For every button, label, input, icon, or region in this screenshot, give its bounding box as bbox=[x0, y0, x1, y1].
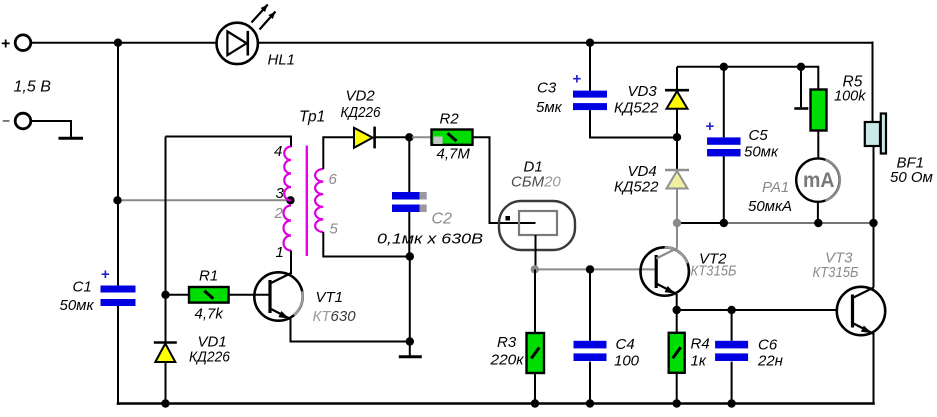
resistor R3 bbox=[527, 333, 545, 373]
wire minus terminal to ground bbox=[32, 121, 72, 137]
node C5 top junction bbox=[720, 63, 728, 71]
label SBM20 bbox=[511, 174, 561, 191]
wire junction to C2 top bbox=[408, 137, 410, 192]
label 0,1мк x 630В bbox=[377, 231, 483, 248]
wire C5 bottom bbox=[723, 156, 725, 223]
capacitor C1 bbox=[101, 286, 136, 307]
svg-text:3: 3 bbox=[276, 185, 285, 202]
label VD1 bbox=[198, 334, 227, 351]
meter PA1 bbox=[796, 158, 840, 201]
svg-text:КД522: КД522 bbox=[614, 100, 659, 117]
svg-text:4,7k: 4,7k bbox=[195, 306, 225, 323]
label KT315B (VT3) bbox=[813, 264, 859, 281]
diode VD1 bbox=[154, 295, 177, 404]
label 50мк (C5) bbox=[744, 144, 779, 161]
label HL1 bbox=[268, 52, 296, 69]
wire pin 6 to VD2 bbox=[323, 137, 353, 169]
pin 1 label bbox=[276, 244, 284, 261]
resistor R1 bbox=[189, 287, 229, 303]
wire VT1 emitter to ground stub bbox=[290, 341, 411, 343]
svg-text:КТ315Б: КТ315Б bbox=[813, 264, 859, 281]
wire PA1 to right edge (grey) bbox=[818, 222, 873, 224]
svg-text:VD2: VD2 bbox=[346, 88, 376, 105]
wire pin 1 to VT1 collector bbox=[290, 251, 292, 275]
label R1 bbox=[199, 268, 218, 285]
label R3 bbox=[497, 334, 517, 351]
label C3 bbox=[537, 80, 557, 97]
svg-text:R4: R4 bbox=[691, 336, 710, 353]
diode VD3 bbox=[665, 67, 689, 137]
label 100k bbox=[834, 89, 866, 105]
label KT630 bbox=[313, 308, 357, 325]
wire D1 junction to VT2 base (grey) bbox=[535, 268, 656, 270]
node C4 bottom rail bbox=[586, 399, 594, 407]
transformer Tr1 primary winding upper (pins 4-3) bbox=[284, 147, 291, 201]
svg-text:КД226: КД226 bbox=[341, 104, 382, 121]
node C5 bottom bbox=[720, 219, 728, 227]
node VD1 bottom rail bbox=[161, 399, 169, 407]
svg-text:5: 5 bbox=[330, 221, 339, 238]
wire VT2 emitter down bbox=[676, 294, 678, 310]
pin 6 label bbox=[329, 171, 338, 188]
svg-text:C3: C3 bbox=[537, 80, 557, 97]
label C6 bbox=[758, 337, 778, 354]
diode VD4 bbox=[665, 137, 689, 223]
capacitor C3 bbox=[573, 91, 607, 111]
svg-text:0,1мк x 630В: 0,1мк x 630В bbox=[377, 231, 483, 248]
label 1к bbox=[691, 353, 707, 370]
svg-text:1,5 В: 1,5 В bbox=[14, 79, 52, 96]
label VD3 bbox=[628, 83, 658, 100]
svg-text:C2: C2 bbox=[432, 211, 453, 228]
node PA1 bottom bbox=[814, 219, 822, 227]
svg-text:22н: 22н bbox=[757, 353, 783, 370]
transistor VT3 bbox=[837, 287, 885, 335]
svg-text:Тр1: Тр1 bbox=[299, 109, 325, 126]
node emitter/ground junction bbox=[406, 337, 414, 345]
battery plus terminal bbox=[1, 35, 31, 53]
wire C3 bottom to VD3 junction bbox=[590, 110, 675, 137]
wire VT1 emitter down bbox=[290, 319, 292, 342]
wire C2 junction down to emitter line bbox=[409, 257, 411, 342]
wire R1 to VT1 base bbox=[229, 294, 270, 296]
wire VT2 collector (grey) bbox=[676, 223, 678, 248]
svg-text:R3: R3 bbox=[497, 334, 517, 351]
wire right edge top (to BF1) bbox=[872, 42, 874, 123]
svg-text:mA: mA bbox=[803, 169, 835, 192]
label 5мк bbox=[536, 99, 563, 116]
svg-text:КД226: КД226 bbox=[189, 349, 231, 366]
label 22н bbox=[757, 353, 783, 370]
wire C2 bottom bbox=[408, 212, 410, 257]
wire right edge lower (BF1 to VT3 collector) bbox=[873, 146, 875, 288]
svg-text:КД522: КД522 bbox=[614, 179, 659, 196]
label KT315B (VT2) bbox=[691, 263, 737, 280]
label KD226 (VD1) bbox=[189, 349, 231, 366]
svg-text:50мк: 50мк bbox=[60, 297, 95, 314]
pin 5 label bbox=[330, 221, 339, 238]
node transformer pin 3 tap bbox=[286, 196, 294, 204]
label 4,7М bbox=[437, 146, 471, 163]
label BF1 bbox=[897, 155, 925, 172]
svg-text:50мк: 50мк bbox=[744, 144, 779, 161]
node C2 bottom junction bbox=[406, 252, 414, 260]
label VD4 bbox=[628, 163, 657, 180]
label VT2 bbox=[699, 251, 727, 268]
svg-text:VD4: VD4 bbox=[628, 163, 657, 180]
svg-text:HL1: HL1 bbox=[268, 52, 296, 69]
transistor VT1 bbox=[254, 272, 302, 320]
label Tr1 bbox=[299, 109, 325, 126]
node R5 wiper junction bbox=[797, 63, 805, 71]
wire R2 to D1 anode bbox=[473, 137, 536, 223]
svg-text:50мкА: 50мкА bbox=[748, 198, 792, 215]
diode VD2 bbox=[354, 127, 409, 149]
wire R4 top bbox=[676, 310, 678, 333]
svg-text:+: + bbox=[1, 36, 10, 53]
wire stub to ground bar bbox=[409, 342, 411, 356]
svg-text:2: 2 bbox=[274, 205, 284, 222]
label 50 Ом bbox=[890, 169, 933, 186]
label C4 bbox=[616, 336, 635, 353]
label D1 bbox=[524, 159, 543, 176]
Geiger tube D1 body bbox=[499, 201, 575, 250]
svg-text:КТ315Б: КТ315Б bbox=[691, 263, 737, 280]
wire PA1 to bottom line bbox=[817, 202, 819, 223]
svg-text:50 Ом: 50 Ом bbox=[890, 169, 933, 186]
resistor R5 bbox=[811, 90, 827, 131]
wire R4 bottom bbox=[676, 373, 678, 404]
wire C4 top bbox=[589, 269, 591, 340]
node top rail / x118 junction bbox=[114, 39, 122, 47]
svg-text:5мк: 5мк bbox=[536, 99, 563, 116]
label KD522 (VD4) bbox=[614, 179, 659, 196]
svg-text:100k: 100k bbox=[834, 89, 866, 105]
wire left vertical below C1 bbox=[117, 306, 119, 405]
plus mark C1 bbox=[101, 266, 110, 283]
wire battery column to transformer pin 3 (grey) bbox=[118, 199, 291, 201]
wire VD3 cathode to R5 top bbox=[677, 67, 818, 90]
capacitor C6 bbox=[715, 341, 748, 361]
node battery column y200 bbox=[113, 196, 121, 204]
ground bar (VT1 emitter) bbox=[399, 355, 422, 358]
wire VT2 emitter to VT3 base bbox=[677, 309, 837, 311]
transformer Tr1 secondary winding (pins 6-5) bbox=[315, 169, 323, 232]
pin 3 label bbox=[276, 185, 285, 202]
svg-text:220к: 220к bbox=[489, 352, 524, 369]
label KD522 (VD3) bbox=[614, 100, 659, 117]
node R3 bottom rail bbox=[531, 399, 539, 407]
wire feedback column x=165.5 bbox=[165, 137, 167, 342]
label 50мкА bbox=[748, 198, 792, 215]
node right edge y223 bbox=[869, 219, 877, 227]
sounder BF1 bbox=[865, 114, 886, 154]
svg-text:6: 6 bbox=[329, 171, 338, 188]
svg-text:C6: C6 bbox=[758, 337, 778, 354]
wire junction to R2 (grey) bbox=[412, 136, 432, 138]
svg-text:+: + bbox=[573, 71, 582, 88]
capacitor C4 bbox=[574, 341, 607, 361]
pin 4 label bbox=[274, 143, 282, 160]
node C6 top junction bbox=[727, 306, 735, 314]
svg-text:PA1: PA1 bbox=[762, 179, 789, 196]
R5 wiper wire bbox=[800, 67, 802, 108]
wire C6 top bbox=[731, 310, 733, 341]
svg-text:VT1: VT1 bbox=[316, 289, 344, 306]
label C1 bbox=[73, 279, 92, 296]
transformer Tr1 primary winding lower (pins 2-1) bbox=[284, 206, 291, 251]
label VD2 bbox=[346, 88, 376, 105]
resistor R2 bbox=[432, 130, 473, 145]
wire R3 to rail bbox=[534, 373, 536, 404]
node VD2/R2/C2 junction bbox=[405, 133, 413, 141]
label R2 bbox=[440, 111, 460, 128]
svg-text:C4: C4 bbox=[616, 336, 635, 353]
wire feedback top horizontal to pin 4 bbox=[166, 137, 292, 148]
label 220к bbox=[489, 352, 524, 369]
svg-text:R2: R2 bbox=[440, 111, 460, 128]
label C2 bbox=[432, 211, 453, 228]
capacitor C5 bbox=[707, 137, 741, 156]
label R5 bbox=[843, 74, 863, 91]
label R4 bbox=[691, 336, 710, 353]
label VT1 bbox=[316, 289, 344, 306]
plus mark C5 bbox=[706, 118, 715, 135]
wire top rail to C3 bbox=[589, 43, 591, 91]
R5 wiper bar bbox=[794, 107, 808, 110]
resistor R4 bbox=[669, 333, 685, 373]
pin 2 label bbox=[274, 205, 284, 222]
wire bottom ground rail bbox=[117, 402, 875, 405]
wire pin 5 to C2 bottom junction bbox=[323, 232, 410, 257]
wire junction to R1 bbox=[166, 294, 190, 296]
node R1/VD1 junction bbox=[161, 291, 169, 299]
transistor VT2 bbox=[641, 247, 689, 295]
wire D1 cathode down bbox=[535, 235, 537, 269]
wire junction to R3 bbox=[534, 269, 536, 333]
wire C5 to PA1 bottom (grey) bbox=[724, 222, 819, 224]
label 100 bbox=[614, 353, 640, 370]
ground bar (battery minus) bbox=[59, 137, 84, 140]
node D1 cathode junction (grey) bbox=[531, 265, 539, 273]
svg-text:C5: C5 bbox=[749, 127, 769, 144]
svg-text:100: 100 bbox=[614, 353, 640, 370]
svg-text:СБМ20: СБМ20 bbox=[511, 174, 561, 191]
svg-text:4: 4 bbox=[274, 143, 282, 160]
capacitor C2 bbox=[392, 192, 427, 212]
svg-text:1к: 1к bbox=[691, 353, 707, 370]
label 50мк (C1) bbox=[60, 297, 95, 314]
LED HL1 bbox=[217, 5, 276, 65]
battery minus terminal bbox=[2, 113, 31, 129]
node VD4/VT2 collector junction (grey) bbox=[673, 219, 681, 227]
node R4 bottom rail bbox=[673, 399, 681, 407]
svg-text:4,7М: 4,7М bbox=[437, 146, 471, 163]
label C5 bbox=[749, 127, 769, 144]
wire top positive rail bbox=[32, 42, 873, 44]
svg-text:−: − bbox=[2, 113, 10, 129]
svg-text:C1: C1 bbox=[73, 279, 92, 296]
label 1,5 В bbox=[14, 79, 52, 96]
svg-text:+: + bbox=[706, 118, 715, 135]
svg-text:R1: R1 bbox=[199, 268, 218, 285]
transformer Tr1 core bbox=[306, 146, 308, 257]
node C6 bottom rail bbox=[727, 399, 735, 407]
node top rail C3 junction bbox=[586, 39, 594, 47]
wire C4 bottom bbox=[589, 362, 591, 404]
label VT3 bbox=[825, 250, 853, 267]
wire VT3 emitter to bottom rail bbox=[873, 333, 875, 404]
wire C5 top bbox=[723, 67, 725, 138]
wire left vertical +battery column x=118 upper bbox=[117, 43, 119, 286]
wire C6 bottom bbox=[731, 362, 733, 404]
label PA1 bbox=[762, 179, 789, 196]
svg-text:КТ630: КТ630 bbox=[313, 308, 357, 325]
plus mark C3 bbox=[573, 71, 582, 88]
label KD226 (VD2) bbox=[341, 104, 382, 121]
node VT2 emitter junction bbox=[673, 306, 681, 314]
svg-text:1: 1 bbox=[276, 244, 284, 261]
node C4 top junction bbox=[586, 265, 594, 273]
svg-text:+: + bbox=[101, 266, 110, 283]
svg-text:VD3: VD3 bbox=[628, 83, 658, 100]
wire VD4 junction to C5 bottom bbox=[677, 222, 724, 224]
label 4,7k bbox=[195, 306, 225, 323]
node VD3/VD4/C3 junction bbox=[673, 133, 681, 141]
wire R5 to PA1 bbox=[817, 131, 819, 159]
